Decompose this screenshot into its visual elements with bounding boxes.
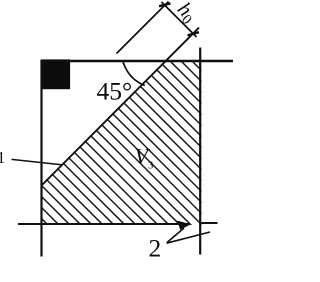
h0 tick mark 2 [188,32,200,35]
svg-text:h0: h0 [171,0,201,28]
svg-text:3: 3 [148,161,153,172]
45-degree cut line, extended up-right as extension line for h0 [42,28,199,185]
leader line b of label 2 [167,232,211,243]
svg-text:2: 2 [149,234,162,263]
h0 tick mark 1 [159,3,171,6]
h0 second extension line [117,2,169,54]
leader arrowhead of label 2 [177,221,191,230]
svg-text:45°: 45° [97,77,133,106]
top edge of square [41,60,233,63]
bottom edge of square [18,223,190,225]
h0 dimension line [162,2,197,37]
section hatching of region Vs [30,0,245,282]
45-degree angle arc [123,62,145,86]
leader line of label 1 [12,159,62,164]
svg-text:1: 1 [0,148,5,167]
leader line a of label 2 [167,228,184,243]
right edge of square [199,48,201,255]
black corner square [41,59,70,89]
left edge of square [40,60,42,257]
bottom edge right extension [200,222,218,224]
